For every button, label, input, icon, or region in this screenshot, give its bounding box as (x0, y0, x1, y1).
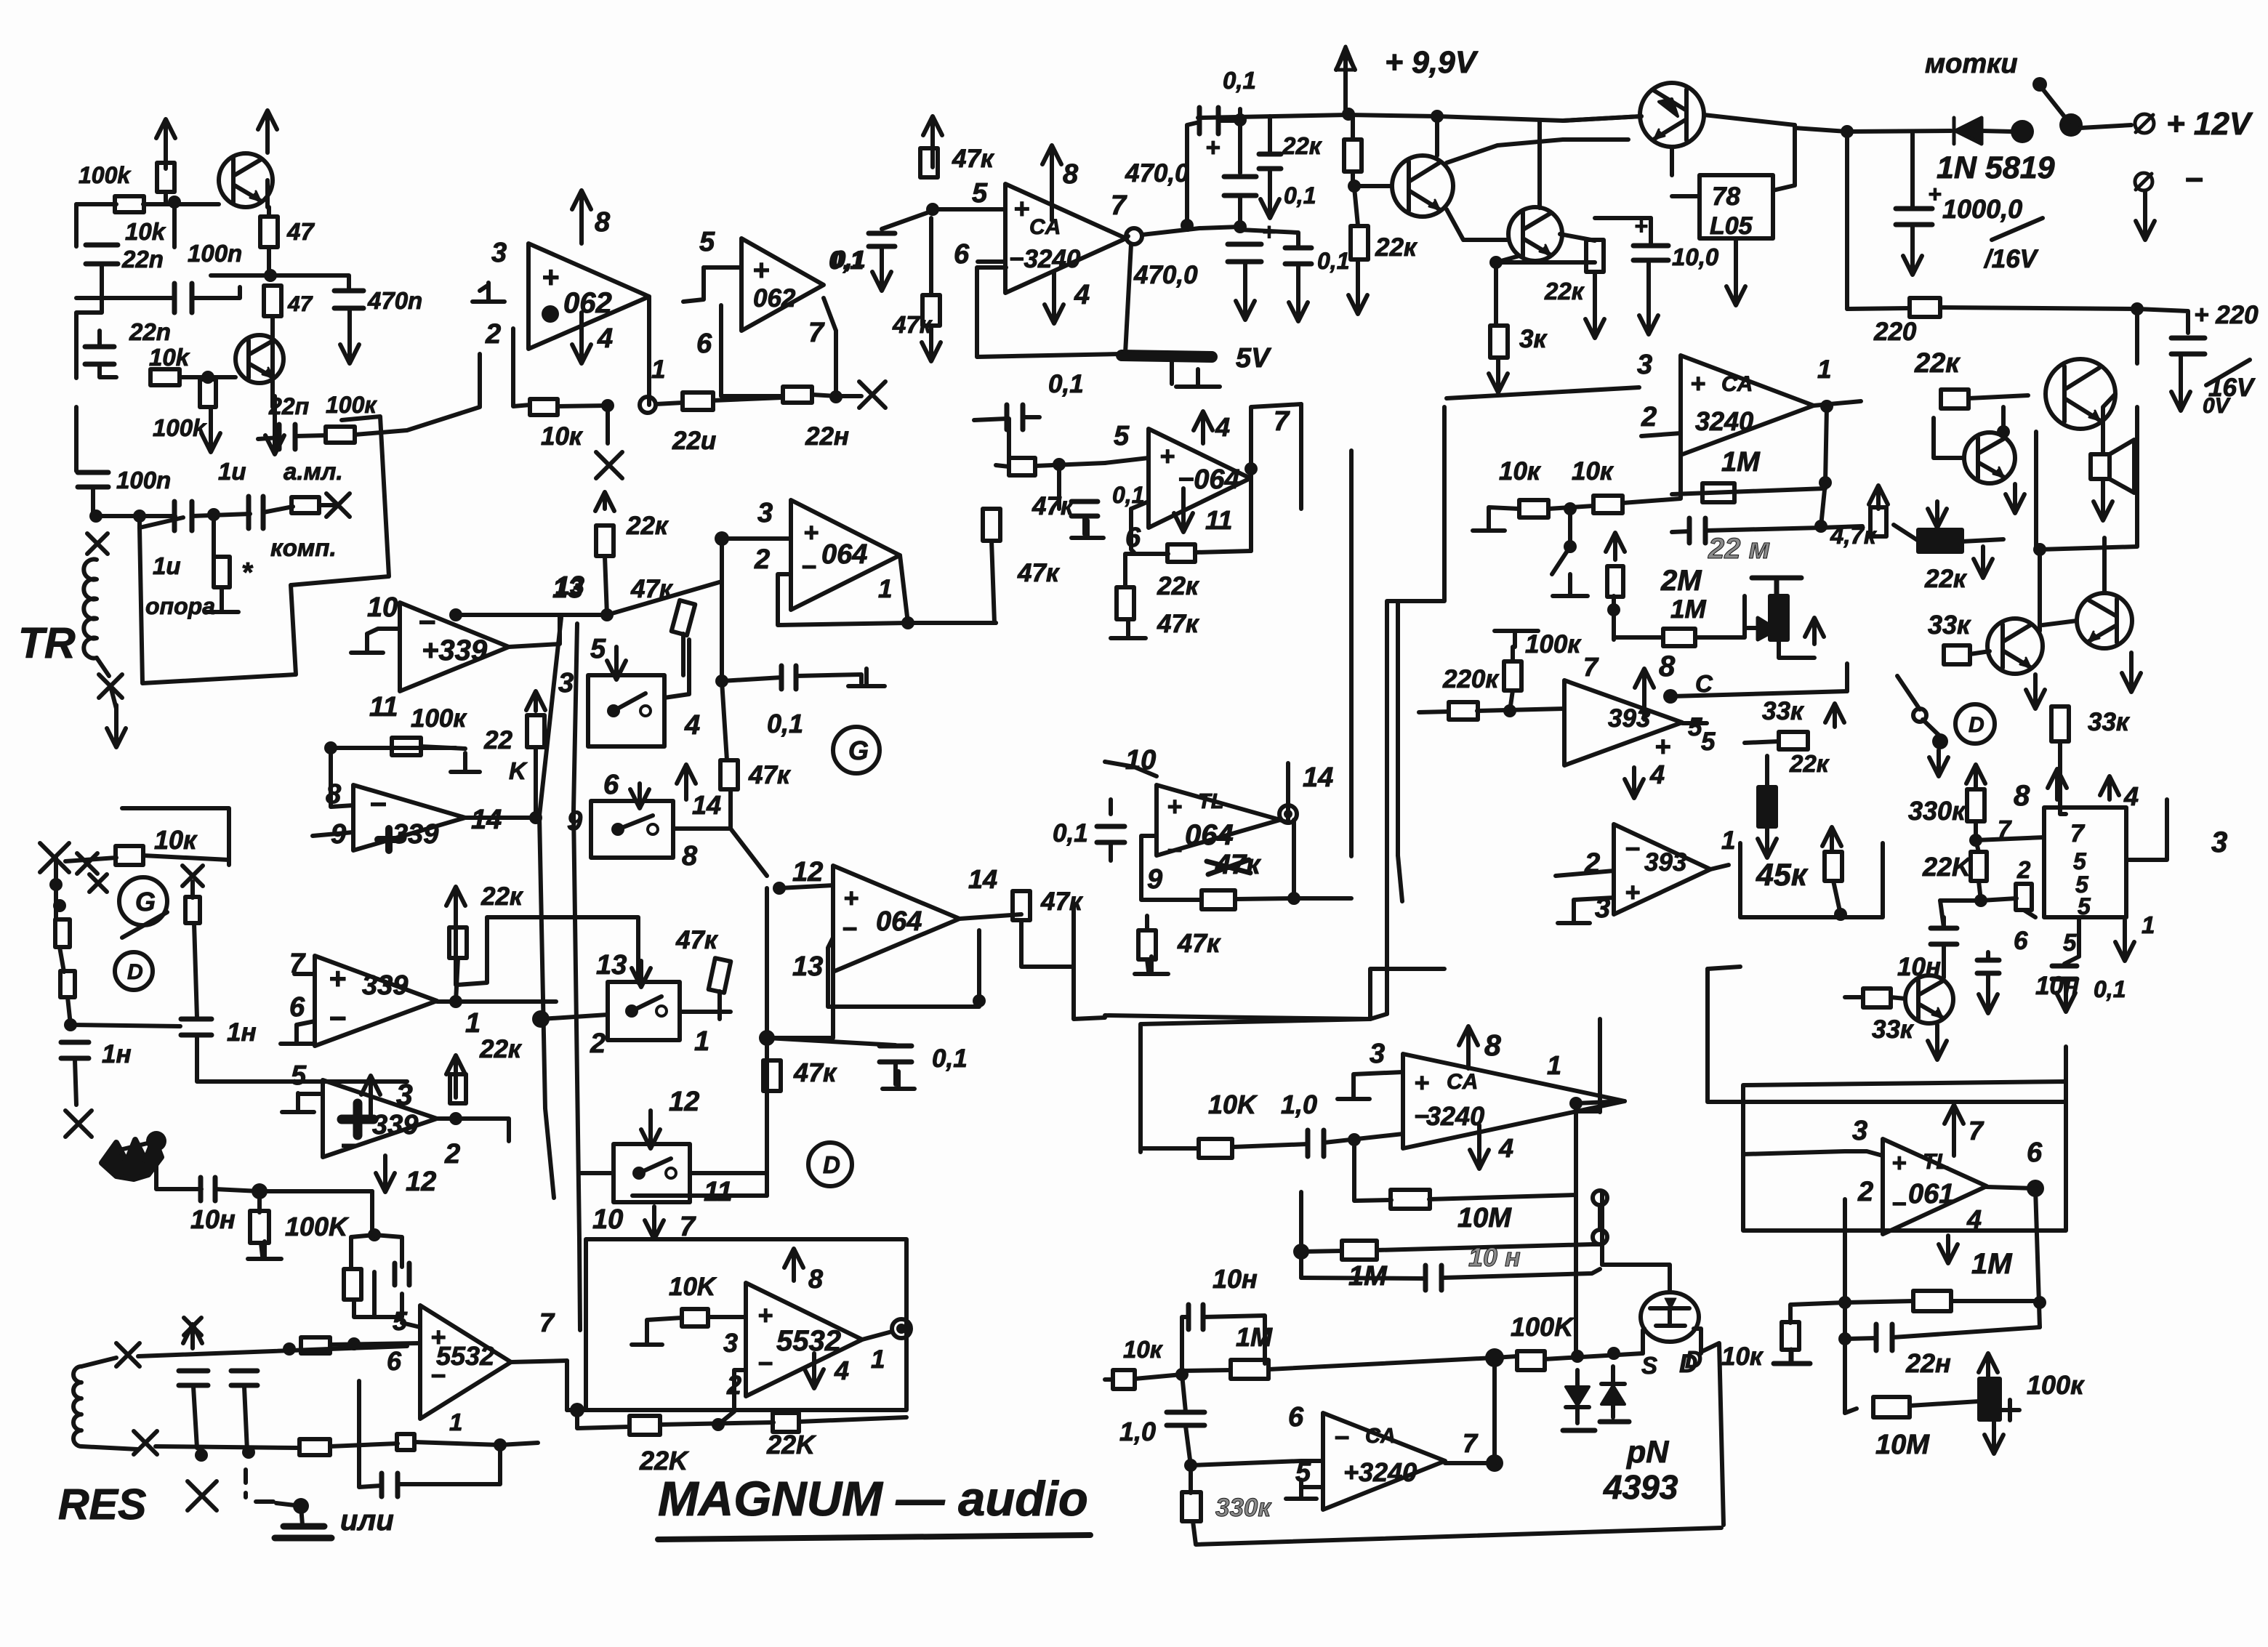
capacitor 0,1 (1259, 154, 1281, 169)
plus (329, 962, 346, 995)
svg-text:22н: 22н (1905, 1348, 1951, 1378)
wire pin2 (1641, 433, 1681, 436)
svg-text:2: 2 (1641, 402, 1657, 432)
capacitor 0,1 (2052, 966, 2077, 979)
node (168, 196, 181, 209)
svg-text:TR: TR (18, 619, 76, 667)
node (1503, 704, 1516, 717)
wire (1891, 997, 1905, 999)
wire (456, 999, 556, 1004)
node (1607, 1347, 1620, 1360)
svg-text:6: 6 (696, 329, 712, 359)
output node (1279, 805, 1297, 823)
plus (843, 883, 858, 913)
label TL (1198, 790, 1223, 813)
svg-text:22K: 22K (1922, 852, 1973, 882)
ground arrow (1236, 263, 1255, 320)
arrow (1822, 827, 1841, 852)
resistor 22k (450, 1074, 466, 1103)
label 339 (422, 635, 488, 667)
node (1181, 219, 1194, 232)
label D (1679, 1350, 1697, 1378)
wire (579, 1171, 614, 1175)
svg-text:4393: 4393 (1603, 1468, 1678, 1506)
wire (713, 398, 782, 400)
diode (1758, 616, 1778, 641)
bus wire (1074, 906, 1105, 1019)
svg-text:10K: 10K (1208, 1090, 1258, 1119)
pin 4 (1215, 412, 1230, 442)
wire (1845, 664, 1849, 691)
node (715, 674, 728, 688)
pin 1 (651, 355, 665, 384)
svg-text:3: 3 (1370, 1039, 1385, 1069)
label 339 (362, 970, 408, 1001)
transistor Q1 (219, 153, 273, 207)
power arrow (526, 691, 545, 711)
wire (1893, 1327, 2040, 1337)
label 0,1 (1048, 370, 1084, 398)
wire (1765, 756, 1769, 789)
pin 6 (954, 239, 970, 270)
label 0,1 (1223, 67, 1256, 94)
wire (68, 997, 71, 1025)
svg-text:10н: 10н (190, 1204, 236, 1234)
ground (205, 595, 238, 612)
svg-text:0V: 0V (2203, 394, 2232, 418)
label +9,9V (1385, 45, 1479, 80)
plus (757, 1300, 773, 1330)
capacitor 10n (1425, 1265, 1441, 1290)
X mark (77, 853, 97, 874)
svg-text:+: + (1654, 732, 1670, 762)
svg-text:1: 1 (871, 1345, 885, 1374)
pin 14 (1303, 762, 1333, 793)
pin 11 (704, 1177, 732, 1207)
wire (799, 1417, 906, 1422)
label C (1695, 670, 1713, 697)
capacitor 220/16V (2171, 338, 2205, 354)
wire (1145, 916, 1149, 930)
wire (1354, 188, 1358, 225)
pin 14 (968, 864, 997, 894)
wire (263, 507, 293, 512)
svg-text:22n: 22n (129, 318, 171, 345)
svg-text:5: 5 (699, 227, 715, 257)
wire (1294, 896, 1351, 901)
wire (1976, 840, 1979, 852)
op-amp 5532 U4b (746, 1283, 862, 1396)
pin 9 (567, 806, 582, 837)
wire (297, 1021, 315, 1025)
resistor 47 (260, 217, 278, 247)
wire (2126, 800, 2167, 860)
svg-text:TL: TL (1198, 790, 1223, 813)
label 10n (190, 1204, 236, 1234)
label 1n (227, 1018, 257, 1047)
svg-text:100к: 100к (1525, 630, 1582, 659)
node D (115, 952, 153, 990)
node (532, 1010, 550, 1028)
svg-text:4: 4 (2123, 781, 2139, 811)
svg-text:22к: 22к (1375, 233, 1418, 262)
wire (1109, 843, 1113, 861)
capacitor 0,1 (880, 1046, 912, 1062)
svg-text:CA: CA (1365, 1425, 1396, 1448)
wire (1614, 635, 1663, 640)
wire (372, 1272, 377, 1317)
svg-text:2: 2 (590, 1028, 606, 1059)
svg-text:0,1: 0,1 (1317, 248, 1349, 274)
wire (1537, 121, 1542, 208)
label 220k (1442, 665, 1500, 693)
wire (1218, 118, 1240, 123)
wire (1377, 1244, 1600, 1250)
wire (1354, 1185, 1391, 1201)
IC 555 (2044, 808, 2126, 919)
wire (1182, 1370, 1231, 1371)
label 16V (2208, 374, 2256, 402)
wire (1845, 132, 1849, 309)
label 5V (1236, 343, 1271, 374)
label 1u (218, 458, 246, 485)
minus (418, 605, 435, 639)
resistor 3k (1490, 326, 1508, 358)
ground arrow (1489, 358, 1508, 392)
label +3240 (1343, 1457, 1417, 1487)
arrow down (1726, 238, 1745, 305)
power pin4 arrow (1470, 1125, 1489, 1169)
wire (1951, 1299, 2040, 1303)
pin 6 (1125, 523, 1141, 553)
svg-text:1: 1 (651, 355, 665, 384)
wire (1189, 1465, 1193, 1493)
power pin4 arrow (805, 1353, 824, 1388)
svg-text:0,1: 0,1 (1048, 370, 1084, 398)
big wire (1708, 969, 2066, 1102)
inductor (84, 560, 97, 659)
wire (1236, 898, 1294, 899)
pin 10 (1125, 745, 1156, 776)
wire (1007, 419, 1011, 467)
pin 4 (2123, 781, 2139, 811)
node (324, 741, 337, 754)
plus (1690, 369, 1705, 398)
wire (1560, 234, 1595, 241)
capacitor 0,1 (869, 233, 895, 246)
label 47k (1032, 492, 1075, 520)
pin 2 (444, 1139, 460, 1169)
power arrow (376, 1156, 395, 1192)
ground (1071, 520, 1103, 538)
ground arrow (340, 310, 359, 363)
svg-text:CA: CA (1721, 372, 1753, 396)
switch pole (2059, 113, 2083, 137)
minus (430, 1361, 446, 1390)
switch lever (2041, 87, 2069, 122)
node (712, 1418, 725, 1431)
transistor Q10 (1905, 975, 1953, 1023)
wire (767, 959, 833, 1038)
svg-text:10: 10 (367, 592, 398, 623)
wire (1574, 898, 1614, 904)
wire (1672, 531, 1689, 532)
wire (1704, 115, 1795, 125)
capacitor 470n (334, 291, 363, 308)
wire (500, 1443, 538, 1445)
svg-text:47к: 47к (1032, 492, 1075, 520)
node (347, 1337, 361, 1350)
node out (1820, 400, 1833, 413)
capacitor (1007, 405, 1023, 430)
bus wire (1105, 1015, 1370, 1019)
pin 3 (1595, 893, 1610, 924)
wire out (511, 1361, 567, 1362)
wire (267, 247, 271, 275)
svg-text:5: 5 (291, 1060, 307, 1091)
capacitor 0,1 (781, 666, 796, 689)
op-amp 062 U1a (528, 243, 649, 349)
big plus (342, 1103, 374, 1135)
lever (1923, 720, 1942, 738)
svg-text:D: D (823, 1151, 840, 1178)
pin 3 (491, 238, 507, 268)
wire (270, 383, 275, 407)
output node (892, 1319, 911, 1338)
wire (717, 991, 722, 1019)
pin 5 (590, 634, 606, 664)
svg-text:4: 4 (1215, 412, 1230, 442)
wire (1354, 184, 1392, 188)
wire (276, 1503, 301, 1506)
svg-text:1М: 1М (1721, 447, 1761, 478)
wire (690, 1171, 767, 1175)
wire (1576, 1109, 1600, 1114)
node (1175, 1368, 1189, 1381)
svg-text:2: 2 (444, 1139, 460, 1169)
label 330k (1215, 1494, 1272, 1522)
op-amp 064 U5a (791, 500, 900, 610)
label motki (1925, 49, 2018, 79)
wire (1568, 574, 1572, 592)
node (1969, 834, 1982, 847)
pin 8 (808, 1264, 823, 1294)
label 22n (121, 246, 164, 273)
wire (367, 629, 400, 634)
wire (1268, 116, 1272, 154)
title MAGNUM (658, 1472, 1088, 1526)
wire (708, 1315, 746, 1319)
svg-text:1,0: 1,0 (1119, 1417, 1156, 1446)
wire (541, 1015, 608, 1019)
node (242, 1446, 255, 1459)
svg-text:100k: 100k (79, 162, 132, 188)
power pin4 arrow (1939, 1236, 1958, 1263)
pin 4 (834, 1356, 849, 1385)
ground bar (275, 1526, 331, 1538)
node (901, 616, 914, 629)
capacitor (174, 283, 192, 313)
wire (1182, 1374, 1186, 1412)
svg-text:47к: 47к (630, 575, 674, 603)
ground arrow (1979, 974, 1998, 1013)
label 1000,0 (1942, 194, 2022, 224)
pin 3 (1852, 1116, 1867, 1146)
label 3240 (1009, 245, 1081, 273)
pin 7 (1998, 816, 2012, 842)
wire (1240, 230, 1298, 247)
label 339 (393, 819, 438, 850)
capacitor 1,0 (1167, 1412, 1205, 1425)
wire (1352, 1140, 1356, 1185)
label 22n (672, 427, 716, 455)
svg-text:3: 3 (757, 498, 773, 528)
arrow pin1 (2115, 920, 2134, 961)
label 062 (753, 284, 796, 313)
wire out (647, 349, 651, 405)
arrow (2026, 674, 2045, 709)
label 10k (541, 422, 584, 451)
pin 5 (1295, 1457, 1311, 1488)
resistor (214, 557, 230, 587)
switch pole (1913, 709, 1926, 722)
label 47k (1040, 887, 1084, 916)
arrow (2094, 481, 2112, 520)
wire (1324, 1134, 1403, 1143)
svg-text:22n: 22n (121, 246, 164, 273)
svg-text:10 н: 10 н (1468, 1242, 1521, 1272)
svg-text:100k: 100k (153, 414, 207, 441)
wire (1672, 194, 1700, 198)
wire (1354, 1072, 1403, 1080)
svg-text:G: G (135, 887, 156, 917)
arrow down (265, 396, 284, 454)
svg-text:+: + (1414, 1068, 1429, 1098)
wire (681, 634, 685, 675)
label 22M (1708, 533, 1770, 565)
svg-text:6: 6 (954, 239, 970, 270)
pin 4 (1074, 280, 1090, 310)
svg-text:100n: 100n (188, 240, 242, 267)
svg-text:6: 6 (2027, 1137, 2043, 1168)
wire (156, 1446, 298, 1448)
wire (76, 202, 116, 206)
wire (421, 746, 465, 749)
svg-text:47к: 47к (675, 926, 719, 954)
svg-text:7: 7 (2070, 820, 2086, 847)
svg-text:8: 8 (808, 1264, 823, 1294)
pin 7 (1463, 1428, 1479, 1458)
resistor (55, 919, 70, 947)
svg-text:7: 7 (1969, 1116, 1984, 1145)
wire (298, 1092, 323, 1096)
ground (882, 1071, 914, 1089)
svg-text:22: 22 (483, 726, 512, 754)
label +12V (2166, 106, 2253, 142)
wire (2001, 407, 2006, 432)
feedback (359, 1381, 381, 1487)
wire (534, 797, 538, 818)
op-amp CA3240 U7a (1681, 355, 1814, 455)
node (1841, 125, 1854, 138)
svg-text:12: 12 (669, 1087, 699, 1117)
wire (720, 539, 724, 681)
wire (673, 826, 731, 831)
plus (430, 1322, 446, 1352)
wire (456, 958, 458, 1002)
wire (1126, 236, 1128, 238)
minus (842, 914, 857, 943)
label 5532 (776, 1325, 841, 1357)
resistor 22k (527, 715, 544, 747)
plus (1205, 134, 1220, 162)
wire (398, 1445, 500, 1484)
resistor 100k (326, 427, 355, 443)
power arrow 11 (1174, 488, 1193, 532)
feedback (1131, 509, 1134, 552)
svg-text:4: 4 (1498, 1133, 1513, 1163)
label 10n (1897, 953, 1941, 981)
label 10,0 (1672, 243, 1719, 270)
op-amp + sign (1013, 194, 1029, 225)
svg-text:10М: 10М (1457, 1203, 1512, 1233)
wire pin5 stub (683, 267, 704, 302)
wire (192, 514, 250, 516)
wire (1694, 1329, 1701, 1353)
wire (1682, 721, 1707, 725)
ground (1338, 1080, 1370, 1099)
svg-text:6: 6 (387, 1346, 402, 1376)
label 10n (1213, 1264, 1258, 1294)
label a.ml (283, 458, 343, 485)
wire (1940, 901, 1944, 927)
wire (1147, 959, 1149, 971)
svg-text:47: 47 (287, 292, 313, 316)
scribble blot (102, 1138, 161, 1179)
node (1838, 1332, 1851, 1345)
pin 14 (471, 805, 502, 835)
svg-text:47: 47 (286, 218, 315, 245)
wire (97, 658, 109, 676)
preset (1758, 787, 1776, 826)
label 10k (149, 344, 190, 371)
label 47 (286, 218, 315, 245)
wire (456, 613, 560, 617)
svg-text:100к: 100к (326, 392, 377, 418)
regulator 78L05 (1700, 175, 1773, 240)
wire (1974, 821, 1978, 840)
svg-text:7: 7 (1463, 1428, 1479, 1458)
pin 1 (1547, 1050, 1561, 1080)
pin 6 (696, 329, 712, 359)
svg-text:33к: 33к (1928, 610, 1971, 640)
wire (605, 556, 607, 615)
capacitor 22n (279, 424, 295, 449)
blob (1663, 689, 1678, 704)
svg-text:2: 2 (1857, 1177, 1873, 1207)
label 1M (1971, 1248, 2013, 1280)
power pin 8 arrow (1042, 145, 1061, 220)
wire (722, 536, 791, 541)
capacitor 1u (249, 496, 263, 528)
wire (1970, 651, 1990, 654)
svg-text:1: 1 (449, 1409, 462, 1435)
node (829, 390, 843, 403)
svg-text:+: + (1690, 369, 1705, 398)
label 1n (102, 1040, 132, 1068)
wire (1940, 307, 2137, 309)
wire (882, 211, 933, 229)
